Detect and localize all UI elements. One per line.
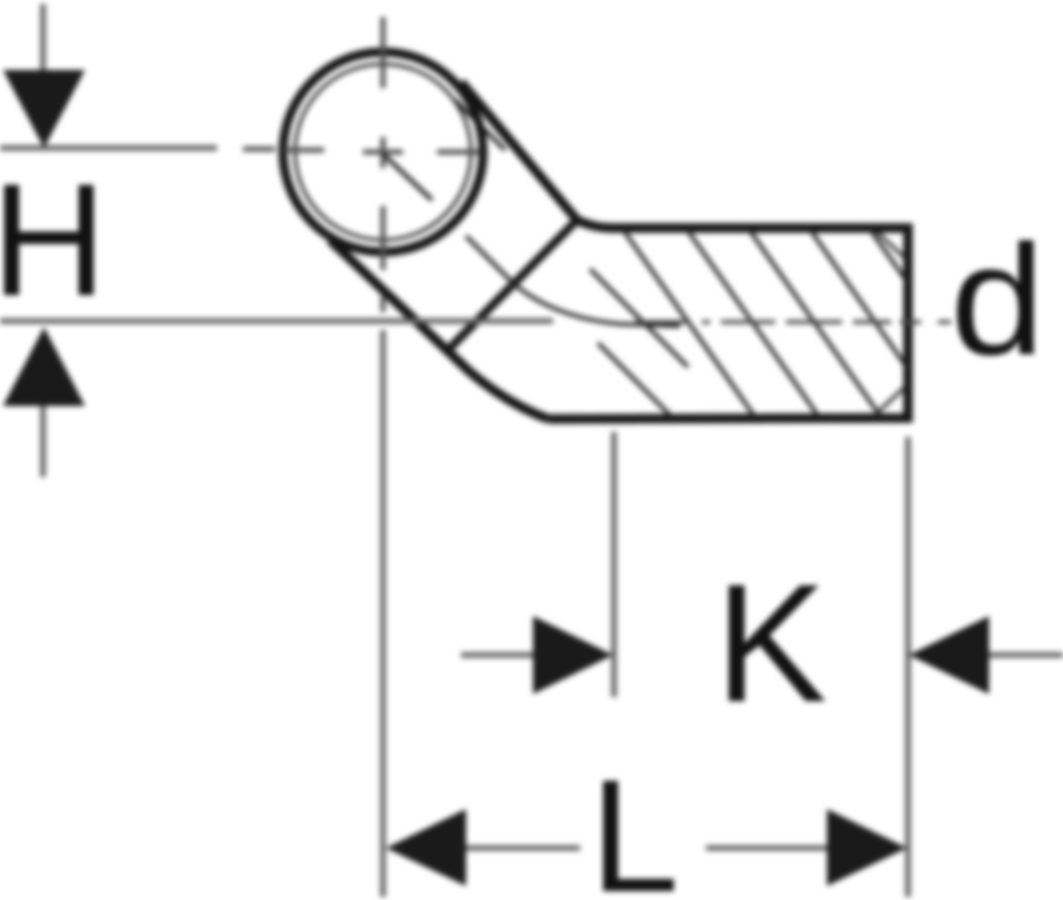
svg-text:K: K (715, 549, 827, 737)
svg-text:d: d (950, 213, 1045, 388)
svg-text:H: H (0, 150, 107, 329)
svg-text:L: L (590, 746, 679, 900)
